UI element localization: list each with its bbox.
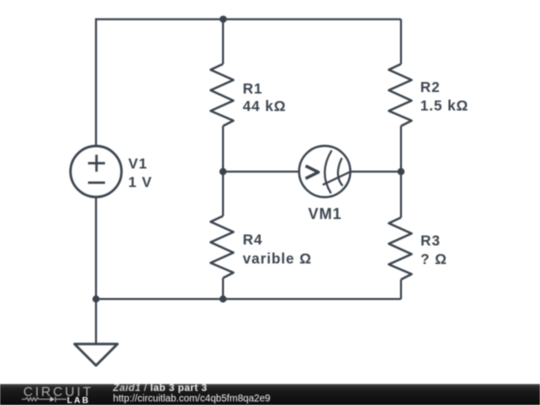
svg-text:http://circuitlab.com/c4qb5fm8: http://circuitlab.com/c4qb5fm8qa2e9 xyxy=(113,394,270,405)
voltage source V1 xyxy=(71,146,122,197)
node junction mid right xyxy=(397,168,404,175)
svg-text:LAB: LAB xyxy=(67,395,90,405)
wire left column upper xyxy=(95,18,97,146)
wire bottom rail xyxy=(96,298,401,300)
wire right column middle xyxy=(400,126,402,218)
svg-text:Zaid1 / lab 3 part 3: Zaid1 / lab 3 part 3 xyxy=(112,383,207,394)
VM1 arc left xyxy=(325,150,332,193)
VM1 arc right xyxy=(338,158,343,186)
resistor R2 xyxy=(389,64,412,126)
VM1 needle xyxy=(323,172,351,185)
node junction top xyxy=(220,16,227,23)
wire top rail xyxy=(96,18,401,20)
resistor R4 xyxy=(211,216,234,278)
footer bar xyxy=(0,384,540,405)
ground xyxy=(75,344,118,366)
wire R1 bottom lead xyxy=(222,126,224,172)
wire VM1 left xyxy=(223,171,299,173)
voltmeter VM1 xyxy=(299,146,350,197)
wire R2 top lead xyxy=(400,19,402,64)
wire ground stem xyxy=(95,299,97,344)
wire R4 top lead xyxy=(222,172,224,216)
logo diode triangle xyxy=(50,397,55,402)
node junction mid left xyxy=(219,168,226,175)
node junction bottom left xyxy=(92,295,99,302)
V1 minus sign xyxy=(88,181,105,183)
node junction bottom mid xyxy=(219,295,226,302)
resistor R1 xyxy=(211,64,234,126)
wire left column lower xyxy=(95,197,97,300)
wire R4 bottom lead xyxy=(222,278,224,299)
V1 plus sign xyxy=(88,155,105,172)
wire VM1 right xyxy=(350,171,401,173)
logo mini schematic xyxy=(22,396,67,402)
resistor R3 xyxy=(389,218,412,280)
wire R3 bottom lead xyxy=(400,280,402,300)
wire R1 top lead xyxy=(222,19,224,64)
VM1 chevron xyxy=(306,166,319,179)
